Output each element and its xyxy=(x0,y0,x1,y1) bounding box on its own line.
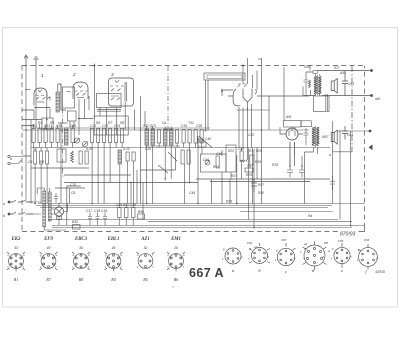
box B50 xyxy=(138,214,145,219)
wire left border taps xyxy=(22,110,34,156)
wire x345 vertical xyxy=(350,152,352,226)
IF cluster 2 xyxy=(182,130,203,183)
wire x31 vertical xyxy=(30,120,32,204)
chassis dashed border bottom-right corner xyxy=(359,228,365,232)
bottom label row left xyxy=(11,237,181,242)
wire output top xyxy=(303,66,372,96)
svg-text:870/93: 870/93 xyxy=(340,232,356,238)
svg-text:C9: C9 xyxy=(28,160,32,164)
wire x269 vertical xyxy=(268,96,270,130)
wire trafo lamp xyxy=(51,204,68,215)
T2 winding fill xyxy=(314,76,317,94)
resistor B30 xyxy=(73,225,81,230)
capacitor C46 xyxy=(216,156,219,168)
capacitor C22 xyxy=(103,129,106,143)
wire mid verticals osc xyxy=(131,170,143,220)
wire tube1 right vertical xyxy=(46,92,48,130)
wire x340 vertical xyxy=(339,130,341,220)
earth terminal xyxy=(34,57,39,67)
box R36 xyxy=(314,96,330,112)
capacitor C47 xyxy=(240,151,243,161)
svg-text:B1: B1 xyxy=(14,277,18,282)
chassis bus triple xyxy=(36,204,365,208)
wire IF cluster bottom tie xyxy=(145,145,180,147)
wire under tube3 box xyxy=(97,110,121,112)
terminal a2 left edge xyxy=(8,162,10,164)
wire x330 vertical xyxy=(332,121,334,204)
svg-text:b: b xyxy=(3,214,5,218)
wire tube4 drops xyxy=(239,104,252,160)
capacitor C60 xyxy=(304,128,309,145)
capacitor C64 xyxy=(342,126,348,140)
capacitor C28 xyxy=(132,152,135,161)
wire x248 vertical xyxy=(248,148,250,220)
screen line IF xyxy=(167,66,169,130)
socket EK2 xyxy=(7,252,25,271)
svg-text:C58: C58 xyxy=(338,239,344,243)
horizontal bus mid xyxy=(31,147,330,149)
svg-text:C46: C46 xyxy=(216,152,222,156)
svg-text:R22: R22 xyxy=(228,149,234,153)
wire top bus tube2 xyxy=(94,66,96,120)
output transformer T2 primary xyxy=(314,76,317,94)
svg-text:B50: B50 xyxy=(138,210,144,214)
socket EBC3 xyxy=(72,252,90,270)
svg-text:S22·S23: S22·S23 xyxy=(143,124,156,128)
svg-text:C30: C30 xyxy=(145,147,151,151)
trimmer C14 xyxy=(74,138,87,147)
svg-text:R29: R29 xyxy=(246,173,252,177)
capacitor C13 xyxy=(50,129,53,143)
socket AZ1 xyxy=(137,252,155,268)
svg-text:3: 3 xyxy=(111,72,114,77)
output terminals xyxy=(370,69,373,72)
svg-text:R25: R25 xyxy=(255,160,261,164)
field coil T3 winding1 xyxy=(312,127,315,145)
component band cluster C xyxy=(91,129,124,148)
wire lamp top xyxy=(58,203,60,226)
capacitor C20 xyxy=(85,151,88,164)
svg-text:C26: C26 xyxy=(116,203,122,207)
rectifier filter parts xyxy=(284,121,306,178)
grid cap shield box xyxy=(204,73,245,80)
svg-text:R30: R30 xyxy=(258,191,264,195)
tube V1 xyxy=(34,88,50,106)
svg-text:C66: C66 xyxy=(364,238,370,242)
wire antenna down xyxy=(25,67,27,201)
box 936 xyxy=(313,71,317,74)
svg-text:C7: C7 xyxy=(33,147,37,151)
field coil T3 winding2 xyxy=(316,127,319,145)
capacitor C61 xyxy=(304,76,309,86)
wire grid dash tube1 xyxy=(25,89,31,91)
wire tube2 down grid xyxy=(79,96,89,135)
svg-text:C19: C19 xyxy=(101,209,107,213)
svg-text:M57: M57 xyxy=(322,135,329,139)
svg-text:B5: B5 xyxy=(143,277,147,282)
svg-text:R5: R5 xyxy=(40,160,44,164)
svg-text:a: a xyxy=(10,157,12,161)
svg-text:B6: B6 xyxy=(174,277,178,282)
svg-text:B30: B30 xyxy=(72,220,78,224)
oscillator shield box xyxy=(94,116,128,135)
bandfilter box1 xyxy=(42,118,53,129)
svg-text:A44: A44 xyxy=(339,71,346,75)
svg-text:R20: R20 xyxy=(197,138,203,142)
wire top to tube4 caps xyxy=(243,58,248,84)
svg-text:C62: C62 xyxy=(247,241,253,245)
socket pin tiny labels xyxy=(8,248,379,270)
wire box tube1 bottom xyxy=(34,108,50,120)
wire earth down xyxy=(35,67,37,128)
svg-text:C64: C64 xyxy=(347,133,353,137)
svg-text:EK2: EK2 xyxy=(11,237,21,242)
osc bandfilter box xyxy=(63,87,75,108)
pilot lamp xyxy=(54,207,63,216)
T3 core xyxy=(315,126,317,147)
tube V5 rectifier xyxy=(286,128,298,156)
horizontal bus AVC xyxy=(22,128,309,130)
svg-text:R9: R9 xyxy=(50,121,54,125)
svg-text:C8: C8 xyxy=(71,191,75,195)
tube V3 xyxy=(109,78,134,106)
svg-text:C18: C18 xyxy=(94,209,100,213)
svg-text:C16: C16 xyxy=(56,124,62,128)
svg-text:R28: R28 xyxy=(272,163,278,167)
resistor R29 xyxy=(245,168,253,172)
capacitor C16 xyxy=(71,129,74,143)
svg-text:B4: B4 xyxy=(111,277,115,282)
socket b xyxy=(249,243,270,264)
wire choke connections xyxy=(305,152,314,204)
wire x198 vertical xyxy=(197,136,199,204)
junction cross top border xyxy=(94,64,96,68)
bus y221 xyxy=(148,220,352,222)
svg-text:R7: R7 xyxy=(108,121,112,125)
wire tube2 left xyxy=(61,84,66,110)
capacitor C18 xyxy=(96,213,100,226)
wire grid box verticals xyxy=(206,80,209,131)
svg-text:667 A: 667 A xyxy=(189,266,224,280)
resistor R3 xyxy=(34,151,37,164)
second row box xyxy=(57,149,66,162)
capacitor C11 xyxy=(38,129,41,143)
T2 core xyxy=(317,75,319,95)
chassis dashed border top xyxy=(22,65,365,67)
schematic main wiring xyxy=(22,58,351,228)
svg-text:C10: C10 xyxy=(70,124,76,128)
T3 winding fill xyxy=(312,127,315,146)
coil S14 xyxy=(118,150,122,164)
svg-text:Ra: Ra xyxy=(308,214,312,218)
svg-text:a: a xyxy=(3,202,5,206)
svg-text:C17: C17 xyxy=(86,209,92,213)
bottom-left small parts xyxy=(25,202,145,229)
capacitor C63 xyxy=(342,71,348,96)
wire x254 vertical xyxy=(253,150,255,228)
capacitor C18b xyxy=(40,151,43,164)
capacitor C58 xyxy=(299,166,305,178)
socket EM1 xyxy=(167,252,185,271)
resistor R13 xyxy=(181,150,184,164)
resistor R6 xyxy=(97,129,100,143)
svg-text:Sp: Sp xyxy=(247,164,251,168)
output transformer T2 secondary xyxy=(318,76,321,94)
svg-text:45: 45 xyxy=(79,246,83,250)
component band cluster D2 xyxy=(181,138,254,204)
antenna coil L1 xyxy=(56,92,60,112)
resistor zigzag R34 xyxy=(309,80,311,88)
svg-text:Ca: Ca xyxy=(162,121,166,125)
svg-text:R17: R17 xyxy=(249,149,255,153)
wire rectifier heater xyxy=(290,156,295,166)
capacitor C57 xyxy=(287,166,293,178)
resistor R5 xyxy=(46,151,49,164)
resistor R1 xyxy=(32,129,35,143)
svg-text:40: 40 xyxy=(47,246,51,250)
terminal triangle xyxy=(369,145,373,151)
socket EBL1 xyxy=(105,252,123,271)
capacitor C33 xyxy=(158,130,161,144)
resistor R4 xyxy=(126,152,129,161)
tube V2 xyxy=(73,82,88,99)
capacitor C67b xyxy=(330,176,335,190)
wire h C70 xyxy=(55,186,85,188)
capacitor C51 xyxy=(251,179,257,192)
T1 connection frame xyxy=(37,188,66,230)
box I157 xyxy=(301,121,311,127)
svg-text:C32: C32 xyxy=(248,133,254,137)
svg-text:C47: C47 xyxy=(238,147,244,151)
wire x184 xyxy=(184,164,186,204)
osc box xyxy=(68,111,77,121)
resistor R2 xyxy=(44,129,47,143)
resistor R9 xyxy=(56,129,59,143)
wire D2 drops xyxy=(212,179,230,204)
bus pair lower xyxy=(50,219,338,221)
resistor R10 xyxy=(79,151,82,164)
svg-text:R11: R11 xyxy=(123,203,129,207)
tube V4 xyxy=(233,84,269,110)
wire h under tube2 xyxy=(58,119,93,129)
socket d xyxy=(303,241,327,270)
coil S8 zigzag xyxy=(71,151,74,163)
svg-text:EM1: EM1 xyxy=(170,237,181,242)
svg-text:42030: 42030 xyxy=(375,270,385,274)
svg-text:T32: T32 xyxy=(188,121,194,125)
shield dash-dot line xyxy=(351,66,353,152)
resistor R14 xyxy=(187,150,190,164)
coil S24 xyxy=(164,129,168,145)
wire tube4 plate right xyxy=(257,95,309,97)
svg-text:C29: C29 xyxy=(130,203,136,207)
capacitor C36 xyxy=(182,130,185,144)
resistor R25 xyxy=(250,155,254,165)
wire tube4 top left xyxy=(222,90,233,96)
wire cluster C drops long xyxy=(92,148,110,204)
svg-text:R19: R19 xyxy=(213,165,219,169)
terminal a1 left edge xyxy=(8,155,10,157)
box C45 xyxy=(201,154,227,172)
svg-text:4.25: 4.25 xyxy=(86,147,93,151)
T1 winding primary xyxy=(43,191,46,227)
coil S23 xyxy=(151,129,155,145)
svg-text:R26: R26 xyxy=(256,149,262,153)
socket EF9 xyxy=(40,252,58,270)
capacitor C37 xyxy=(188,130,191,144)
capacitor C34 xyxy=(176,130,179,144)
svg-text:AZ1: AZ1 xyxy=(140,237,150,242)
wire right mid horizontals xyxy=(196,179,330,182)
wire band drops A xyxy=(34,143,73,148)
svg-text:R27: R27 xyxy=(258,183,264,187)
svg-text:EBC3: EBC3 xyxy=(74,237,88,242)
svg-text:C11: C11 xyxy=(31,124,37,128)
wire switch to trafo xyxy=(25,202,41,214)
bottom double bus xyxy=(52,226,365,228)
right row letters xyxy=(232,268,368,274)
terminal dot lower xyxy=(369,130,372,133)
chassis dashed border left xyxy=(21,66,23,232)
svg-text:C40: C40 xyxy=(205,137,211,141)
tiny labels band xyxy=(3,65,381,224)
trimmer C44 xyxy=(205,160,210,165)
svg-text:C38: C38 xyxy=(196,124,202,128)
switch arm S2 xyxy=(158,152,177,173)
svg-text:EBL1: EBL1 xyxy=(107,237,120,242)
T1 winding secondary xyxy=(48,192,51,221)
tick on top border xyxy=(258,58,262,60)
wire left mid horizontal xyxy=(64,182,198,184)
svg-text:C65: C65 xyxy=(281,238,287,242)
capacitor C24 xyxy=(115,129,118,143)
component band cluster A xyxy=(32,124,74,148)
svg-text:c: c xyxy=(285,269,287,274)
svg-text:e: e xyxy=(341,268,343,273)
svg-text:C36: C36 xyxy=(181,124,187,128)
svg-text:M8: M8 xyxy=(324,241,328,245)
coil S6 xyxy=(65,128,69,145)
svg-text:EF9: EF9 xyxy=(43,237,53,242)
box R22 xyxy=(226,145,236,172)
speaker SP1 xyxy=(331,79,337,94)
svg-text:2: 2 xyxy=(72,72,76,77)
wire coil top xyxy=(58,84,61,110)
svg-text:AM: AM xyxy=(285,115,291,119)
component band cluster C2 xyxy=(118,150,135,204)
resistor R11 xyxy=(125,208,129,218)
svg-text:4.25: 4.25 xyxy=(123,147,130,151)
wire T2 box verticals xyxy=(316,74,328,111)
capacitor C67 xyxy=(54,193,58,203)
wire h under band mid xyxy=(141,148,176,170)
wire right verticals xyxy=(253,58,262,204)
socket numbers xyxy=(14,246,178,250)
wire tube3 drops xyxy=(100,102,125,135)
svg-text:R8: R8 xyxy=(120,121,124,125)
wire a-terminal stubs xyxy=(10,157,22,164)
bottom sub labels xyxy=(14,277,178,282)
trimmer C15 xyxy=(82,141,87,146)
svg-text:R6: R6 xyxy=(96,121,100,125)
svg-text:R33: R33 xyxy=(226,200,232,204)
mains switch xyxy=(8,200,33,215)
svg-text:33: 33 xyxy=(14,246,18,250)
screen line osc xyxy=(62,109,64,178)
wire border to box xyxy=(22,120,42,126)
wire rect to choke xyxy=(280,67,303,134)
tube3 lower box xyxy=(97,94,122,108)
socket e xyxy=(334,243,350,268)
svg-text:26: 26 xyxy=(173,246,178,250)
capacitor C17 xyxy=(88,213,92,226)
socket a xyxy=(225,248,241,264)
antenna A1 xyxy=(24,55,28,67)
resistor R8 xyxy=(121,129,124,143)
coil S25 xyxy=(170,129,174,145)
svg-text:936: 936 xyxy=(304,65,310,69)
chassis dashed border right xyxy=(364,66,366,228)
wire vertical x140 xyxy=(135,96,146,204)
wire x236 vertical xyxy=(236,155,238,204)
component band cluster B xyxy=(34,148,49,204)
wire band h left xyxy=(31,168,131,175)
IF transformer S22/S23 xyxy=(145,126,179,204)
Sp coil loops xyxy=(240,160,253,172)
svg-text:B8: B8 xyxy=(79,277,83,282)
svg-text:a3: a3 xyxy=(304,242,308,246)
svg-text:R23: R23 xyxy=(231,174,237,178)
capacitor C19 xyxy=(103,213,107,226)
svg-text:1: 1 xyxy=(41,73,44,78)
capacitor C29 xyxy=(132,208,136,218)
coil S22 xyxy=(145,129,149,145)
svg-text:C63: C63 xyxy=(348,82,354,86)
svg-text:C70: C70 xyxy=(70,183,76,187)
svg-text:C45: C45 xyxy=(203,158,209,162)
capacitor C26 xyxy=(118,208,122,218)
wire grid dash tube2 xyxy=(67,90,70,92)
socket f xyxy=(358,244,377,270)
box R20 xyxy=(198,142,206,147)
chassis dashed border bottom xyxy=(22,231,338,233)
speaker SP2 xyxy=(331,130,337,144)
right row tiny labels xyxy=(247,238,370,254)
socket c xyxy=(277,243,295,266)
wire mid drops xyxy=(61,123,69,226)
coil Sp xyxy=(240,160,247,162)
box AM xyxy=(284,121,302,128)
capacitor C21 xyxy=(91,129,94,143)
capacitor C38 xyxy=(200,130,203,144)
wire SP2 loop xyxy=(314,131,371,154)
svg-text:C49: C49 xyxy=(189,191,195,195)
diagonal switch arm xyxy=(199,136,212,148)
svg-text:a1: a1 xyxy=(254,245,258,249)
svg-text:52: 52 xyxy=(144,246,148,250)
svg-text:45: 45 xyxy=(112,246,116,250)
svg-text:972: 972 xyxy=(334,66,340,70)
svg-text:R1: R1 xyxy=(38,121,42,125)
resistor R12 xyxy=(194,130,197,144)
resistor R7 xyxy=(109,129,112,143)
box under lamp xyxy=(57,217,62,220)
